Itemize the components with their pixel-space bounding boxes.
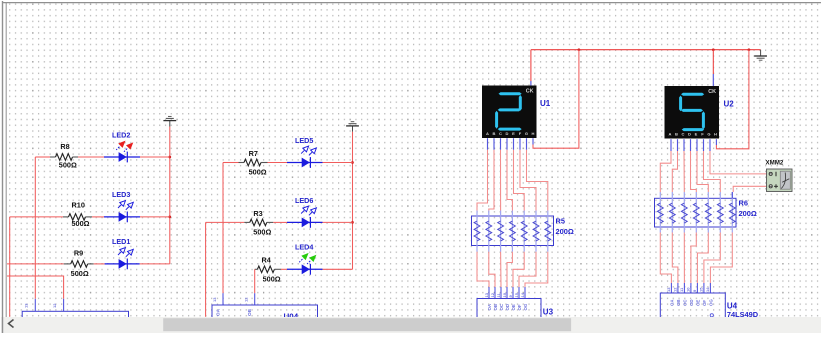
svg-text:OA: OA — [487, 303, 492, 310]
LED5 anode wire (blue) — [287, 162, 323, 164]
R5 through-wires (light blue) — [477, 211, 548, 252]
U2 CK pin stub — [712, 74, 714, 86]
svg-text:LED4: LED4 — [295, 242, 313, 251]
svg-text:OE: OE — [511, 304, 516, 310]
svg-text:R7: R7 — [249, 149, 258, 158]
U3 pin numbers (rotated) — [484, 292, 525, 297]
wire R3 to LED6 — [273, 221, 287, 223]
svg-text:H: H — [532, 131, 535, 136]
svg-text:LED1: LED1 — [112, 237, 130, 246]
wire R5 column 4 to U3 pin 4 — [507, 252, 512, 287]
wire R5 column 6 to U3 pin 6 — [519, 252, 536, 287]
resistor pack R5 box — [472, 216, 554, 246]
wire R5 column 5 to U3 pin 5 — [513, 252, 524, 287]
panel splitter bottom-left — [2, 317, 4, 333]
wire LED3 to vertical — [140, 216, 170, 218]
wire U1 pin D to R5 column 4 — [507, 150, 512, 211]
LED1 anode wire (blue) — [105, 263, 140, 265]
middle chip pin number labels (rotated) — [212, 297, 249, 302]
resistor R8 — [50, 154, 78, 161]
wire R3 row from elbow x205.6 — [206, 221, 245, 223]
svg-text:500Ω: 500Ω — [253, 227, 271, 236]
svg-text:CK: CK — [526, 89, 534, 95]
svg-text:E: E — [695, 132, 698, 137]
wire horizontal y276 from edge to x63.6 elbow down — [7, 276, 64, 299]
svg-text:R8: R8 — [60, 142, 69, 151]
wire vertical x223 R7 down to middle chip pin — [222, 163, 224, 294]
wire LED1 to vertical corner — [140, 263, 170, 265]
svg-text:500Ω: 500Ω — [71, 219, 89, 228]
wire LED4 to vertical corner — [323, 268, 353, 270]
junction dot rail-U2branch — [748, 48, 751, 51]
resistor R4 — [255, 266, 281, 273]
svg-text:E: E — [512, 131, 515, 136]
svg-text:OA: OA — [216, 308, 221, 316]
U4 pin stubs (blue) — [671, 283, 710, 293]
svg-text:11: 11 — [679, 287, 684, 292]
U4 BI pin bubble — [710, 314, 713, 317]
svg-text:OE: OE — [696, 300, 701, 306]
svg-text:12: 12 — [673, 287, 678, 292]
U4 inner pin names (rotated) — [670, 299, 714, 306]
svg-text:12: 12 — [490, 292, 495, 297]
ground (top right) — [754, 50, 767, 61]
svg-text:U2: U2 — [724, 99, 735, 108]
wire R8 to LED2 — [78, 156, 104, 158]
LED D4 (lit green) — [299, 253, 316, 275]
svg-text:LED3: LED3 — [112, 190, 130, 199]
svg-text:B: B — [675, 132, 678, 137]
svg-text:OG: OG — [523, 303, 528, 310]
middle chip pin stub B (blue) — [254, 293, 256, 305]
wire R8 row from elbow x35 to resistor — [35, 156, 50, 158]
middle bottom chip box (partial) — [212, 305, 318, 319]
wire middle-group vertical bus — [352, 132, 354, 269]
resistor R10 — [63, 214, 92, 221]
svg-text:15: 15 — [514, 292, 519, 297]
svg-text:500Ω: 500Ω — [249, 168, 267, 177]
decoder U3 box (partial) — [477, 299, 541, 321]
wire R9 row from canvas edge — [7, 263, 64, 265]
svg-text:H: H — [714, 132, 717, 137]
wire LED2 to vertical — [140, 156, 170, 158]
U2 segment pin stubs (blue) — [671, 139, 710, 151]
wire U1 pin G to R5 column 7 — [527, 150, 548, 211]
svg-text:A: A — [486, 131, 489, 136]
LED D2 (lit red) — [116, 141, 133, 163]
wire vertical x254.7 R4 down to middle chip pin — [254, 269, 256, 293]
wire R5 column 1 to U3 pin 1 — [477, 252, 489, 287]
wire R5 column 3 to U3 pin 3 — [500, 252, 502, 287]
svg-text:OB: OB — [493, 304, 498, 311]
svg-text:A: A — [669, 132, 672, 137]
seven-segment display U1 (digit 2) — [482, 86, 537, 139]
wire U1 CK riser — [530, 50, 532, 81]
svg-text:200Ω: 200Ω — [739, 209, 757, 218]
U3 inner pin names (rotated) — [487, 303, 528, 310]
svg-text:G: G — [707, 132, 710, 137]
resistor R9 — [64, 261, 94, 268]
XMM2 col7 stub (blue) — [731, 192, 733, 198]
LED D6 — [301, 206, 316, 228]
svg-text:LED5: LED5 — [295, 136, 313, 145]
svg-text:500Ω: 500Ω — [59, 160, 77, 169]
U1 segment pin stubs (blue) — [488, 138, 527, 150]
U1 CK pin stub — [530, 81, 532, 86]
left bottom chip box (partial) — [22, 311, 128, 325]
junction dots left vertical — [168, 156, 171, 219]
decoder U4 box (partial) — [660, 293, 725, 319]
svg-text:R6: R6 — [739, 199, 748, 208]
svg-text:OD: OD — [505, 304, 510, 311]
wire U1 pin A to R5 column 1 — [477, 150, 488, 211]
wire R10 row elbow from x9.7 — [10, 216, 63, 218]
wire R10 to LED3 — [92, 216, 104, 218]
R6 through-wires (light blue) — [660, 192, 732, 233]
left chip pin stub A (blue) — [34, 299, 36, 312]
wire R6 column 7 to U4 pin 7 — [710, 233, 732, 284]
svg-text:G: G — [525, 131, 528, 136]
wire vertical x35 from R8 row down to left chip pin — [34, 157, 36, 299]
seven-segment display U2 (digit 5) — [665, 86, 720, 139]
LED6 anode wire (blue) — [287, 221, 323, 223]
wire R4 to LED4 — [281, 268, 287, 270]
svg-text:R5: R5 — [556, 216, 565, 225]
svg-text:B: B — [493, 131, 496, 136]
U4 pin numbers (rotated) — [666, 287, 710, 292]
wire U2 pinH branch: vertical x749.3 + jog to pin H — [716, 50, 749, 149]
svg-text:OC: OC — [499, 303, 504, 310]
wire U1 pin C to R5 column 3 — [500, 150, 502, 211]
wire R6 column 5 to U4 pin 5 — [697, 233, 708, 284]
R5 zigzag resistors — [474, 221, 551, 241]
svg-text:U4: U4 — [727, 302, 738, 311]
wire vertical x9.7 from R10 row down — [9, 217, 11, 317]
svg-text:13: 13 — [484, 292, 489, 297]
wire XMM2 - terminal to R6 column 7 — [733, 186, 766, 192]
ground (middle group) — [346, 122, 359, 132]
svg-text:LED6: LED6 — [295, 196, 313, 205]
svg-text:10: 10 — [502, 292, 507, 297]
wire U1 pin E to R5 column 5 — [514, 150, 525, 211]
wire R7 to LED5 — [268, 162, 288, 164]
svg-text:R10: R10 — [72, 201, 85, 210]
LED D1 — [118, 248, 133, 270]
wire vertical x205.6 R3 down off-canvas — [205, 222, 207, 316]
wire R5 column 2 to U3 pin 2 — [489, 252, 495, 287]
svg-text:13: 13 — [24, 303, 29, 308]
left chip pin number labels (rotated) — [24, 303, 58, 308]
wire U2 pin A to R6 column 1 — [660, 151, 671, 192]
wire U2 pin D to R6 column 4 — [691, 151, 697, 192]
svg-text:LED2: LED2 — [112, 130, 130, 139]
svg-text:10: 10 — [686, 287, 691, 292]
junction dot rail-U2ck — [712, 48, 715, 51]
svg-text:OG: OG — [709, 299, 714, 306]
svg-text:CK: CK — [708, 89, 716, 95]
U1 pin H stub — [532, 138, 534, 144]
junction dots middle vertical — [351, 161, 354, 224]
ground (left group) — [163, 116, 176, 126]
svg-text:200Ω: 200Ω — [556, 227, 574, 236]
resistor R7 — [239, 159, 268, 166]
svg-text:500Ω: 500Ω — [263, 274, 281, 283]
svg-text:14: 14 — [520, 292, 525, 297]
svg-text:U1: U1 — [540, 99, 551, 108]
svg-text:OB: OB — [247, 308, 252, 316]
left chip pin stub B (blue) — [63, 299, 65, 312]
wire LED6 to vertical — [323, 221, 353, 223]
LED D5 — [301, 146, 316, 168]
svg-text:11: 11 — [496, 292, 501, 297]
svg-text:12: 12 — [244, 297, 249, 302]
LED D3 — [118, 201, 133, 223]
svg-text:12: 12 — [52, 303, 57, 308]
middle chip inner pin names (rotated) — [216, 308, 253, 316]
wire U2 pin G to XMM2 + terminal — [710, 151, 767, 174]
svg-text:XMM2: XMM2 — [766, 159, 784, 166]
resistor R3 — [244, 219, 273, 226]
wire LED5 to vertical — [323, 162, 353, 164]
wire U1 pin B to R5 column 2 — [489, 150, 494, 211]
svg-text:14: 14 — [705, 287, 710, 292]
LED2 anode wire (blue) — [104, 156, 140, 158]
svg-text:OF: OF — [517, 304, 522, 310]
wire R6 column 6 to U4 pin 6 — [704, 233, 720, 284]
wire R6 column 1 to U4 pin 1 — [660, 233, 671, 284]
U2 pin H stub — [715, 139, 717, 145]
horizontal scrollbar — [4, 317, 821, 333]
svg-text:OA: OA — [670, 299, 675, 306]
svg-text:R3: R3 — [253, 209, 262, 218]
wire left-group vertical bus — [169, 127, 171, 264]
wire R6 column 4 to U4 pin 4 — [691, 233, 696, 284]
junction dot rail-U1ckbranch — [578, 48, 581, 51]
wire U2 pin F to R6 column 6 — [704, 151, 721, 192]
wire R9 to LED1 — [94, 263, 105, 265]
wire R6 column 3 to U4 pin 3 — [683, 233, 685, 284]
wire U2 pin C to R6 column 3 — [683, 151, 685, 192]
U3 pin stubs (blue) — [489, 287, 525, 299]
svg-text:R4: R4 — [262, 255, 272, 264]
wire U1 pinH branch: vertical x578.9 + jog to pin H — [533, 50, 579, 149]
LED4 anode wire (blue) — [287, 268, 323, 270]
svg-text:13: 13 — [666, 287, 671, 292]
wire U2 pin E to R6 column 5 — [697, 151, 708, 192]
svg-text:C: C — [499, 131, 502, 136]
svg-text:OB: OB — [676, 299, 681, 306]
svg-text:OD: OD — [689, 299, 694, 306]
resistor pack R6 box — [655, 198, 737, 227]
wire U2 pin B to R6 column 2 — [672, 151, 677, 192]
R6 zigzag resistors — [657, 203, 735, 223]
svg-text:500Ω: 500Ω — [71, 269, 89, 278]
LED3 anode wire (blue) — [104, 216, 140, 218]
svg-text:15: 15 — [699, 287, 704, 292]
wire top rail — [531, 49, 761, 51]
svg-text:D: D — [506, 131, 509, 136]
svg-text:U3: U3 — [543, 308, 554, 317]
wire U2 CK riser — [712, 50, 714, 74]
svg-text:OC: OC — [683, 299, 688, 306]
svg-text:R9: R9 — [74, 249, 83, 258]
svg-text:D: D — [688, 132, 691, 137]
svg-text:13: 13 — [212, 297, 217, 302]
wire R6 column 2 to U4 pin 2 — [672, 233, 678, 284]
wire R5 column 7 to U3 pin 7 — [525, 252, 548, 287]
svg-text:OF: OF — [702, 300, 707, 306]
svg-text:C: C — [682, 132, 685, 137]
middle chip pin stub A (blue) — [222, 293, 224, 305]
wire U1 pin F to R5 column 6 — [520, 150, 536, 211]
multimeter XMM2 — [767, 169, 793, 192]
wire R7 row from elbow x223 — [223, 162, 239, 164]
